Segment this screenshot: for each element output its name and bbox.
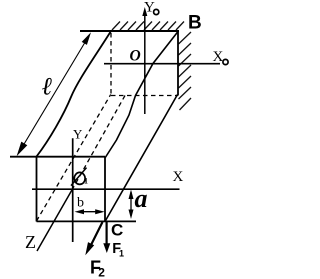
wall hatching top [112,22,184,31]
F1 force arrow [105,222,107,244]
wall end face: right edge [177,31,179,96]
phi1 label [74,172,85,184]
Z axis solid part [37,189,73,251]
free end face [10,157,136,222]
wall end face: bottom edge (hidden, dashed) [111,95,178,97]
X0 axis (wall) [104,63,220,65]
svg-text:X: X [173,169,184,185]
wall end face: left edge (hidden, dashed) [110,33,112,96]
F2 force arrow [91,222,103,245]
svg-text:1: 1 [119,249,124,259]
wall hatching right [179,32,192,110]
Y axis (free end) [72,138,74,242]
X axis (free end) [32,188,180,190]
centroidal axis dashed part [73,96,126,190]
svg-text:2: 2 [98,266,105,279]
svg-text:C: C [111,220,123,239]
svg-text:b: b [77,196,84,211]
wall surface line [80,30,179,32]
svg-text:O: O [130,47,141,64]
Y0 axis (wall) [144,12,146,114]
b dimension double arrow [78,211,101,213]
long edge bottom-right [105,95,178,222]
a dimension double arrow [130,192,132,216]
svg-text:ℓ: ℓ [42,74,53,101]
svg-text:X: X [213,49,224,65]
svg-text:B: B [188,12,202,33]
long edge top-left (free corner to wall corner) [37,32,111,157]
svg-text:1: 1 [84,177,88,186]
long edge bottom-left (hidden, dashed) [37,95,111,222]
svg-text:Y: Y [73,127,83,142]
long edge top-right [105,32,178,158]
l dimension line with arrows [21,39,88,150]
svg-text:Z: Z [25,232,36,252]
svg-text:a: a [135,184,148,213]
